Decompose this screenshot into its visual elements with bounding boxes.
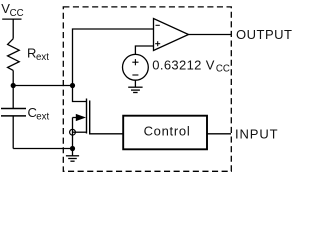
- wire control to INPUT pin: [207, 133, 231, 135]
- svg-text:0.63212 V: 0.63212 V: [152, 57, 214, 72]
- value label 0.63212 VCC: [152, 57, 230, 74]
- body terminal circle: [70, 129, 76, 135]
- VCC supply label: [1, 1, 23, 19]
- wire source bottom to ground: [134, 80, 136, 87]
- svg-text:OUTPUT: OUTPUT: [236, 27, 292, 42]
- wire node A up to comparator minus input: [73, 29, 154, 86]
- junction RC node: [11, 83, 16, 88]
- svg-text:ext: ext: [36, 52, 49, 63]
- wire VCC rail to resistor top: [12, 19, 14, 39]
- gate bar and gate lead to Control: [90, 101, 123, 134]
- capacitor Cext: [1, 109, 26, 116]
- voltage source 0.63212 VCC: [122, 54, 148, 80]
- wire ground node stub: [72, 149, 74, 156]
- label Cext: [28, 105, 50, 122]
- body arrow: [73, 117, 79, 119]
- svg-text:ext: ext: [36, 111, 49, 122]
- svg-text:INPUT: INPUT: [235, 127, 279, 142]
- wire comparator output to OUTPUT pin: [189, 34, 232, 36]
- ground (main): [66, 156, 79, 161]
- ground (reference source): [128, 87, 142, 92]
- source/body vertical to ground: [72, 118, 74, 149]
- svg-text:R: R: [27, 46, 36, 61]
- wire RC node down to capacitor: [12, 86, 14, 109]
- svg-text:CC: CC: [216, 63, 230, 74]
- wire RC node to node A: [13, 85, 72, 87]
- control block: [123, 116, 207, 150]
- transistor Q1 (discharge NMOS): [70, 86, 124, 149]
- op-amp comparator U1: [154, 19, 189, 51]
- wire capacitor bottom down: [12, 116, 14, 149]
- drain connection from node A: [73, 86, 87, 102]
- device boundary (dashed box): [63, 7, 231, 171]
- resistor Rext: [8, 39, 20, 71]
- source stub with body circle: [73, 131, 87, 133]
- junction node A: [70, 83, 75, 88]
- label Rext: [27, 46, 49, 63]
- wire comparator plus input to reference source: [135, 46, 153, 55]
- channel bar: [86, 99, 88, 134]
- wire bottom run to ground node: [13, 148, 72, 150]
- VCC supply rail bar: [2, 18, 21, 20]
- wire resistor bottom to RC node: [12, 70, 14, 85]
- junction ground node: [70, 146, 75, 151]
- svg-text:CC: CC: [10, 8, 24, 19]
- svg-text:Control: Control: [144, 124, 191, 139]
